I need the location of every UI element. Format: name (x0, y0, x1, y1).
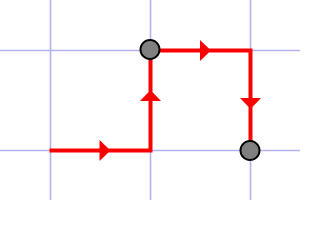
arrow right on top segment (200, 40, 211, 61)
grid horizontal line y=150 (0, 150, 300, 152)
grid vertical line x=250 (250, 0, 252, 200)
grid vertical line x=150 (150, 0, 152, 200)
node B: gray circle at (250,150) (241, 141, 260, 160)
arrow down on right vertical segment (240, 98, 261, 109)
arrow up on middle vertical segment (140, 90, 161, 101)
grid horizontal line y=50 (0, 50, 300, 52)
node A: gray circle at (150,50) (141, 40, 160, 59)
arrow right on bottom segment (100, 140, 111, 161)
grid vertical line x=50 (50, 0, 52, 200)
wire: red route polyline (50,150)->(150,150)->(150,50)->(250,50)->(250,150) (50, 51, 251, 151)
